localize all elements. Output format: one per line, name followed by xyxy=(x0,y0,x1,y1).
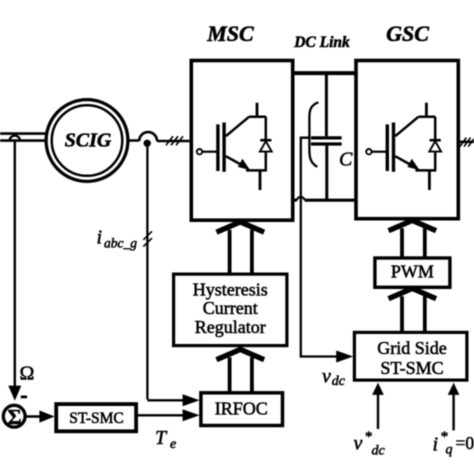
block arrow: Grid Side ST-SMC to PWM xyxy=(389,288,437,298)
capacitor C plates xyxy=(311,138,342,144)
wire: ST-SMC to IRFOC with arrow (T_e) xyxy=(138,414,185,416)
generator SCIG outer circle xyxy=(46,100,128,182)
svg-text:Ω: Ω xyxy=(20,363,35,385)
block arrow: IRFOC to Hysteresis xyxy=(217,349,265,359)
wire: SCIG output to hop xyxy=(128,139,139,142)
svg-text:Σ: Σ xyxy=(7,405,21,429)
block arrow: Hysteresis to MSC xyxy=(217,222,265,232)
wire: i_abc_g measurement line down xyxy=(147,147,185,400)
controller box ST-SMC xyxy=(56,404,136,431)
transistor: GSC IGBT with diode xyxy=(366,103,441,190)
node: junction dot i_abc_g tap xyxy=(144,140,151,147)
svg-text:Current: Current xyxy=(203,298,258,318)
svg-text:C: C xyxy=(339,148,353,170)
hash marks on grid wire xyxy=(460,138,474,147)
svg-text:Hysteresis: Hysteresis xyxy=(193,280,268,300)
wire: DC link top bus xyxy=(293,71,357,75)
node: v_dc arrow into Grid Side ST-SMC xyxy=(336,351,353,363)
svg-text:i: i xyxy=(433,434,439,456)
svg-text:abc_g: abc_g xyxy=(104,236,137,251)
svg-text:ST-SMC: ST-SMC xyxy=(380,358,443,378)
wire: GSC output to grid xyxy=(459,141,474,144)
svg-text:Regulator: Regulator xyxy=(195,317,266,337)
node: arrow into IRFOC (upper) xyxy=(183,394,200,406)
converter MSC box xyxy=(191,61,292,221)
svg-text:=0: =0 xyxy=(456,433,474,453)
label minus sign at summing junction xyxy=(21,395,27,398)
svg-text:dc: dc xyxy=(372,444,386,459)
svg-text:DC Link: DC Link xyxy=(293,34,350,51)
regulator box Hysteresis Current Regulator xyxy=(174,274,287,346)
wire: DC link bottom bus with hop over v_dc line xyxy=(293,199,357,202)
node: summing junction circle xyxy=(3,405,25,427)
generator SCIG inner circle xyxy=(52,105,123,176)
three-phase hash marks on MSC input wire xyxy=(166,136,183,145)
svg-text:SCIG: SCIG xyxy=(65,130,112,152)
hash marks on i_abc_g line xyxy=(143,231,152,246)
svg-text:GSC: GSC xyxy=(386,21,429,46)
node: speed arrow into summing junction xyxy=(8,386,21,401)
svg-text:v: v xyxy=(354,433,363,455)
svg-text:IRFOC: IRFOC xyxy=(215,399,268,419)
wire: summing junction to ST-SMC with arrow xyxy=(25,415,42,417)
wire: hop arc at stator junction xyxy=(139,132,157,141)
svg-text:e: e xyxy=(170,437,176,452)
svg-text:q: q xyxy=(446,443,453,458)
transistor: MSC IGBT with diode xyxy=(197,103,272,190)
controller box PWM xyxy=(375,258,450,287)
controller box IRFOC xyxy=(201,393,283,426)
controller box Grid Side ST-SMC xyxy=(354,332,467,380)
wire: i_q*=0 reference input arrow xyxy=(452,394,454,430)
wire: speed tap from shaft (hop over lower shaft line) xyxy=(10,136,20,141)
svg-text:v: v xyxy=(322,366,331,388)
block arrow: PWM to GSC xyxy=(389,220,437,230)
wire: v_dc* reference input arrow xyxy=(377,394,379,429)
svg-text:PWM: PWM xyxy=(391,261,434,281)
wire: turbine shaft upper line xyxy=(0,132,48,135)
svg-text:ST-SMC: ST-SMC xyxy=(69,410,124,427)
svg-text:T: T xyxy=(155,427,168,449)
wire: hop bracket beside capacitor xyxy=(309,102,318,167)
capacitor C bottom lead xyxy=(325,146,328,199)
svg-text:dc: dc xyxy=(332,374,346,389)
wire: turbine shaft lower line xyxy=(0,139,47,142)
svg-text:Grid Side: Grid Side xyxy=(377,338,447,358)
capacitor C top lead xyxy=(325,74,328,137)
converter GSC box xyxy=(356,61,458,219)
svg-text:i: i xyxy=(97,227,103,249)
wire: v_dc sense tap xyxy=(301,138,337,357)
wire: junction to MSC input xyxy=(157,140,190,143)
svg-text:MSC: MSC xyxy=(206,21,254,46)
